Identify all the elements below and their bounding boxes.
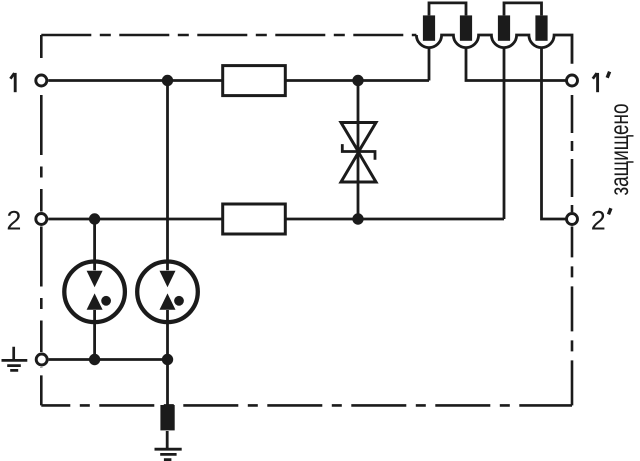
- wire GDT F1 top lead: [93, 219, 96, 270]
- wire GDT F1 bottom lead: [93, 310, 96, 360]
- TVS zener bar: [342, 144, 375, 160]
- wire ground bus: [49, 358, 168, 361]
- resistor R1: [223, 66, 286, 96]
- fuse (indirect ground element): [160, 405, 174, 430]
- enclosure border bottom (dash-dot): [41, 404, 572, 407]
- module bridge pins 3-4: [504, 3, 542, 16]
- module pin 4: [535, 15, 547, 40]
- module pin 2: [460, 15, 472, 40]
- module pin 3: [498, 15, 510, 40]
- enclosure border right (dash-dot): [571, 227, 574, 406]
- terminal 1: [36, 75, 47, 86]
- junction dot line1/TVS: [352, 75, 363, 86]
- wire column 2 (arc2 down to terminal 1'): [466, 47, 566, 80]
- terminal 2: [36, 214, 47, 225]
- junction dot line1/GDT F2: [162, 75, 173, 86]
- wire line 1 from terminal 1 to choke column 1: [48, 79, 429, 82]
- enclosure border top (dash-dot): [41, 34, 416, 37]
- earth symbol left: [2, 347, 28, 371]
- junction dot line2/GDT F1: [89, 213, 100, 224]
- enclosure border left (dash-dot): [40, 35, 43, 58]
- junction dot ground/GDT F2: [162, 354, 173, 365]
- GDT F1 arrow down: [87, 271, 103, 288]
- gas discharge tube F2 circle: [137, 262, 198, 323]
- svg-text:защищено: защищено: [604, 104, 634, 196]
- wire TVS vertical: [357, 81, 360, 220]
- svg-text:2: 2: [6, 206, 21, 236]
- wire GDT F2 top lead (from line 1 crossing line 2): [166, 81, 169, 271]
- TVS suppressor diode lower triangle: [341, 152, 376, 182]
- earth symbol bottom: [155, 431, 182, 460]
- wire column 1 (arc1 down to line 1): [428, 47, 431, 80]
- wire line 2 from terminal 2 to choke column 3: [48, 218, 504, 221]
- wire GDT F2 bottom lead: [166, 310, 169, 360]
- gas discharge tube F1 circle: [64, 262, 125, 323]
- GDT F2 gas dot: [174, 296, 184, 306]
- wire to fuse/ground: [166, 360, 169, 407]
- label terminal 1': [593, 72, 610, 93]
- terminal 1': [567, 75, 578, 86]
- svg-text:2: 2: [591, 206, 606, 236]
- module bridge pins 1-2: [429, 3, 466, 16]
- GDT F2 arrow up: [160, 293, 176, 309]
- junction dot ground/GDT F1: [89, 354, 100, 365]
- wire column 4 (arc4 down to terminal 2'): [542, 47, 566, 219]
- GDT F1 arrow up: [87, 293, 103, 309]
- terminal ground: [36, 354, 47, 365]
- junction dot line2/TVS: [352, 213, 363, 224]
- label terminal 1: [10, 73, 15, 92]
- GDT F1 gas dot: [101, 296, 111, 306]
- resistor R2: [223, 204, 286, 234]
- wire column 3 (arc3 down to line 2): [503, 47, 506, 219]
- GDT F2 arrow down: [160, 271, 176, 288]
- TVS suppressor diode upper triangle: [341, 123, 376, 152]
- terminal 2': [567, 214, 578, 225]
- plug-in module socket arcs on top border: [416, 35, 572, 64]
- module pin 1: [423, 15, 435, 40]
